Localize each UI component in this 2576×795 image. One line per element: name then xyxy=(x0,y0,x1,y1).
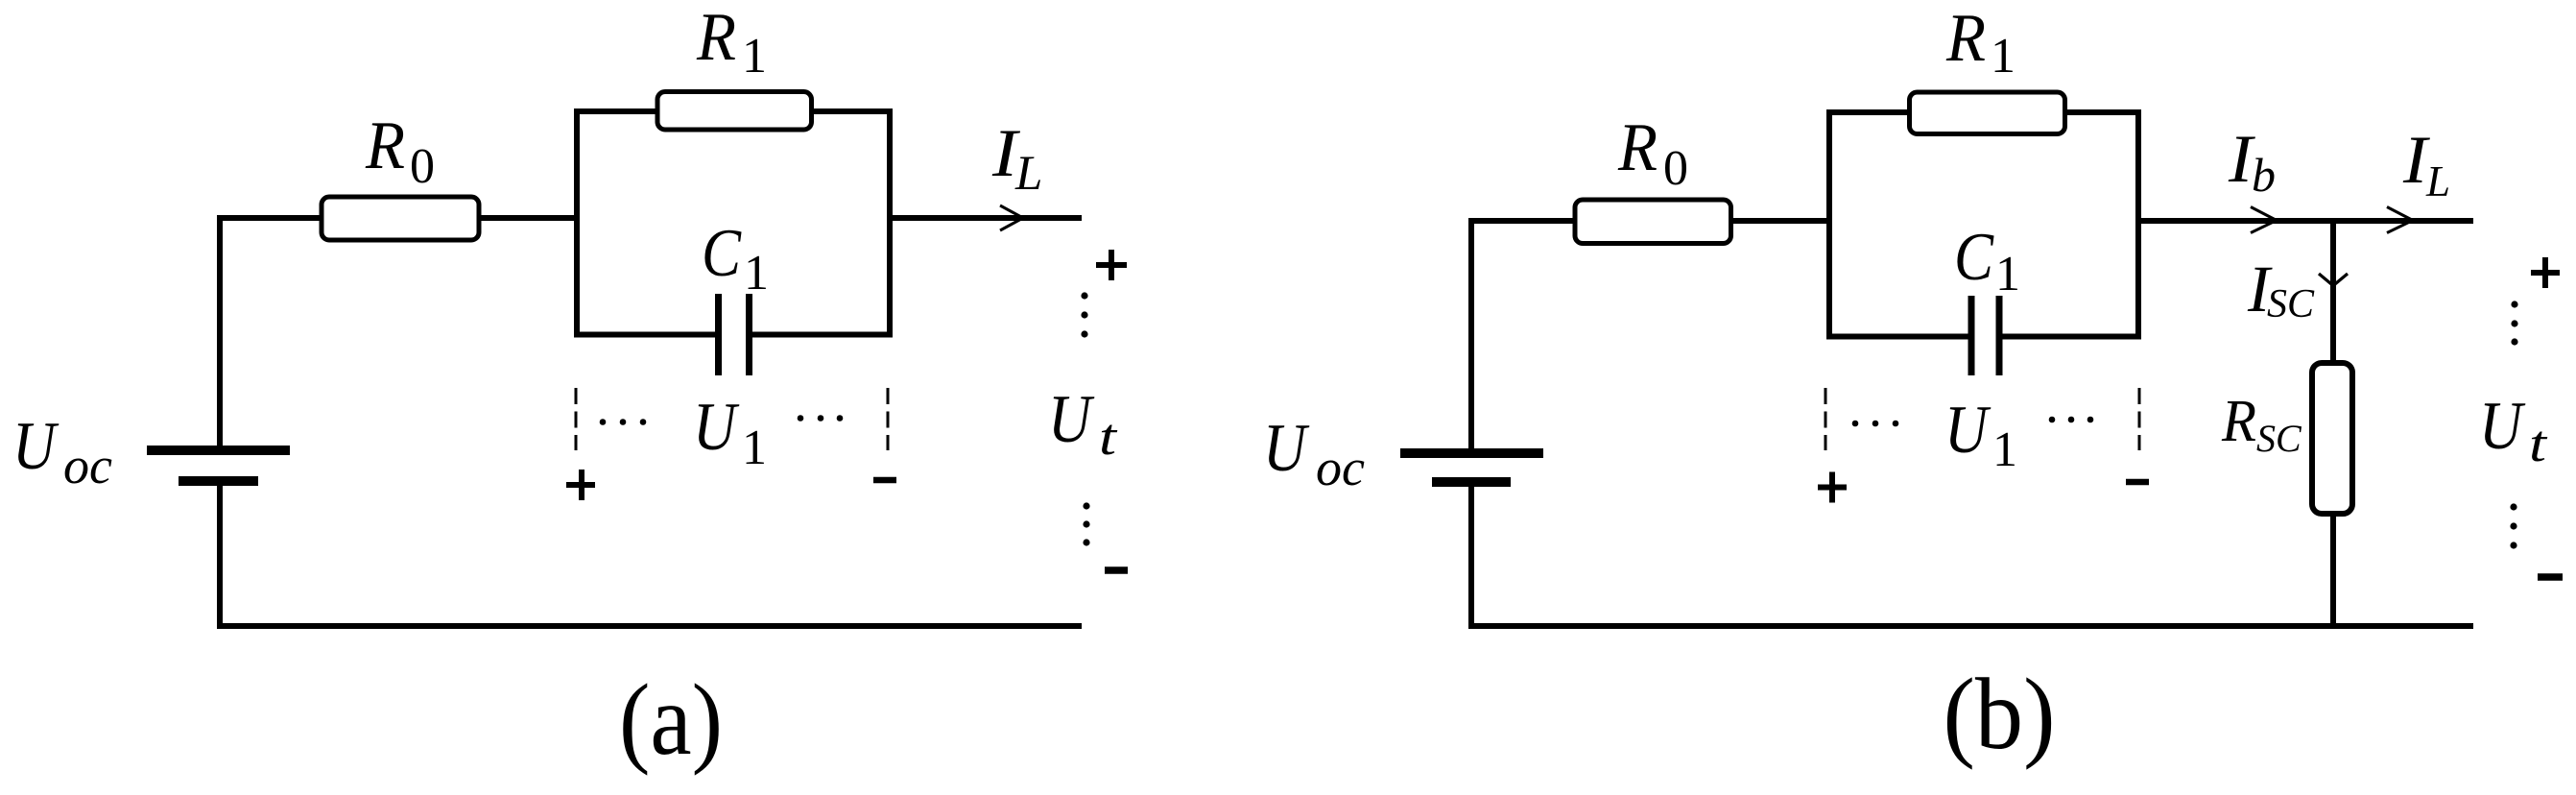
svg-text:1: 1 xyxy=(742,421,767,475)
svg-text:oc: oc xyxy=(63,437,112,494)
wire: battery to bottom rail (a) xyxy=(217,486,223,629)
RC box bottom-left segment (b) xyxy=(1829,334,1968,340)
svg-text:U: U xyxy=(1263,411,1310,486)
minus sign U1 (b) xyxy=(2126,479,2149,486)
svg-text:L: L xyxy=(1014,147,1042,201)
svg-text:t: t xyxy=(2529,415,2548,472)
svg-text:1: 1 xyxy=(1995,247,2020,301)
resistor R0 (a) xyxy=(322,197,479,240)
vdots upper Ut (b) xyxy=(2511,301,2517,307)
resistor R0 (b) xyxy=(1575,200,1731,244)
RC parallel box sides+top (b) xyxy=(1829,112,2138,340)
wire: output Ib/IL (b) xyxy=(2138,218,2473,224)
dashed node line left (b) xyxy=(1825,388,1827,450)
svg-text:C: C xyxy=(1954,220,1994,295)
cdots left of U1 (a) xyxy=(600,419,607,425)
battery Uoc (b) short plate xyxy=(1432,477,1511,487)
arrowhead Ib (b) xyxy=(2251,207,2277,233)
battery Uoc (a) long plate xyxy=(147,446,290,455)
svg-text:t: t xyxy=(1099,408,1118,466)
resistor R1 (b) xyxy=(1910,92,2065,134)
svg-text:(a): (a) xyxy=(619,663,723,776)
arrowhead IL (b) xyxy=(2387,207,2413,233)
svg-text:R: R xyxy=(696,0,736,75)
bottom rail wire (a) xyxy=(217,623,1082,629)
dashed node line right (a) xyxy=(887,388,890,450)
wire: top-left horizontal (a) xyxy=(217,215,323,221)
svg-text:R: R xyxy=(1617,110,1658,185)
capacitor C1 left plate (b) xyxy=(1968,296,1975,375)
capacitor C1 right plate (a) xyxy=(746,294,752,375)
plus sign U1 (a) xyxy=(566,470,595,500)
RC box bottom-right segment (a) xyxy=(752,332,890,338)
resistor R1 (a) xyxy=(657,92,812,131)
svg-text:SC: SC xyxy=(2256,417,2302,460)
plus sign Ut terminal (b) xyxy=(2531,257,2560,288)
svg-text:b: b xyxy=(2252,148,2276,202)
svg-text:1: 1 xyxy=(744,246,769,301)
cdots right of U1 (a) xyxy=(798,415,804,422)
svg-text:U: U xyxy=(1944,393,1992,468)
svg-text:R: R xyxy=(365,108,405,183)
svg-text:R: R xyxy=(2221,389,2256,454)
wire: left vertical to battery (a) xyxy=(217,215,223,446)
svg-text:0: 0 xyxy=(410,139,435,194)
battery Uoc (a) short plate xyxy=(179,476,258,486)
resistor Rsc (b) xyxy=(2312,363,2352,514)
vdots lower Ut (b) xyxy=(2510,503,2516,510)
RC box bottom-right segment (b) xyxy=(2002,334,2138,340)
wire: left vertical to battery (b) xyxy=(1468,218,1474,448)
vdots upper Ut (a) xyxy=(1081,292,1087,299)
bottom rail wire (b) xyxy=(1468,623,2473,629)
arrowhead Isc down (b) xyxy=(2319,274,2348,286)
svg-text:R: R xyxy=(1945,1,1986,76)
wire: R0 to RC box (b) xyxy=(1729,218,1832,224)
capacitor C1 right plate (b) xyxy=(1996,296,2003,375)
svg-text:C: C xyxy=(702,216,742,291)
svg-text:oc: oc xyxy=(1316,439,1365,496)
cdots right of U1 (b) xyxy=(2049,417,2056,423)
svg-text:(b): (b) xyxy=(1944,658,2056,770)
svg-text:SC: SC xyxy=(2267,282,2315,326)
svg-text:1: 1 xyxy=(742,29,767,84)
capacitor C1 left plate (a) xyxy=(715,294,722,375)
wire: Rsc to bottom rail (b) xyxy=(2330,511,2336,629)
arrowhead IL (a) xyxy=(1000,205,1023,230)
battery Uoc (b) long plate xyxy=(1400,448,1543,458)
vdots lower Ut (a) xyxy=(1083,502,1089,509)
wire: top-left horizontal (b) xyxy=(1468,218,1575,224)
svg-text:U: U xyxy=(12,409,60,484)
cdots left of U1 (b) xyxy=(1852,421,1859,427)
svg-text:L: L xyxy=(2425,157,2450,205)
wire: output IL (a) xyxy=(890,215,1082,221)
RC parallel box sides+top (a) xyxy=(577,111,890,338)
wire: battery to bottom rail (b) xyxy=(1468,487,1474,629)
dashed node line right (b) xyxy=(2138,388,2141,450)
RC box bottom-left segment (a) xyxy=(577,332,715,338)
minus sign Ut terminal (b) xyxy=(2538,573,2563,581)
wire: R0 to RC box (a) xyxy=(477,215,580,221)
svg-text:U: U xyxy=(2479,389,2526,464)
svg-text:U: U xyxy=(1048,382,1095,457)
plus sign U1 (b) xyxy=(1818,472,1847,503)
dashed node line left (a) xyxy=(575,388,578,450)
svg-text:U: U xyxy=(693,390,740,465)
minus sign Ut terminal (a) xyxy=(1105,566,1128,574)
svg-text:0: 0 xyxy=(1663,141,1688,196)
svg-text:1: 1 xyxy=(1992,422,2017,477)
plus sign Ut terminal (a) xyxy=(1096,250,1127,280)
svg-text:1: 1 xyxy=(1991,29,2015,84)
minus sign U1 (a) xyxy=(873,477,896,484)
wire: shunt branch junction vertical (b) xyxy=(2330,218,2336,366)
